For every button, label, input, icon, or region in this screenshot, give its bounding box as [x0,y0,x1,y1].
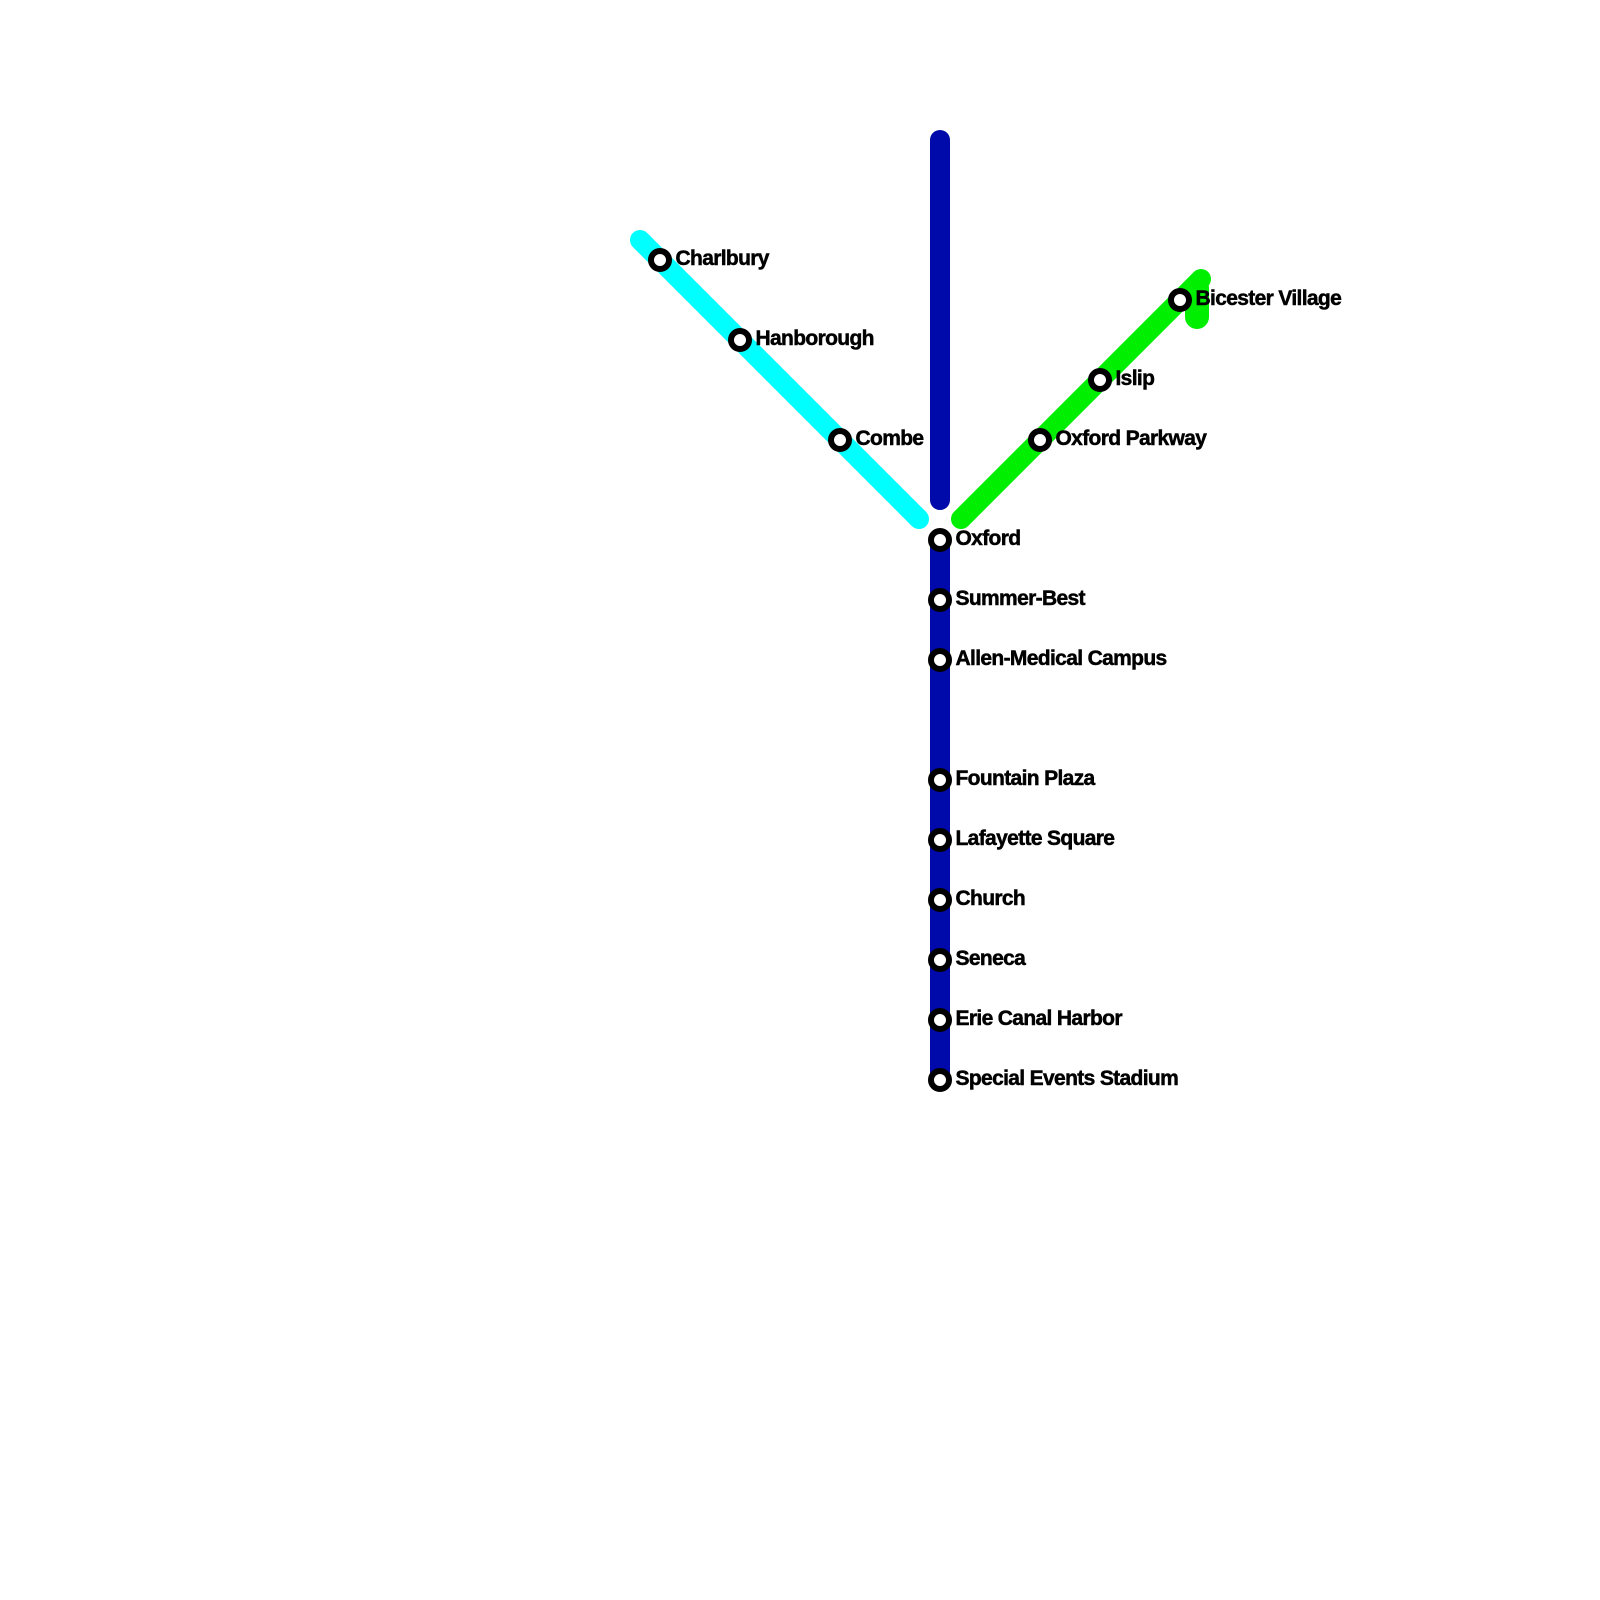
svg-text:Fountain Plaza: Fountain Plaza [956,767,1096,790]
station Oxford [931,527,1020,550]
svg-text:Summer-Best: Summer-Best [956,587,1086,610]
navy line upper segment [930,140,950,500]
station Combe [831,427,923,450]
station Erie Canal Harbor [931,1007,1122,1030]
station Summer-Best [931,587,1086,610]
svg-text:Islip: Islip [1116,367,1155,390]
station Charlbury [651,247,770,270]
station Hanborough [731,327,874,350]
svg-text:Oxford: Oxford [956,527,1021,550]
svg-text:Allen-Medical Campus: Allen-Medical Campus [956,647,1167,670]
station Fountain Plaza [931,767,1096,790]
station Islip [1091,367,1154,390]
station Church [931,887,1025,910]
svg-text:Bicester Village: Bicester Village [1196,287,1342,310]
station Allen-Medical Campus [931,647,1167,670]
station Lafayette Square [931,827,1114,850]
svg-text:Church: Church [956,887,1026,910]
svg-text:Combe: Combe [856,427,924,450]
svg-text:Hanborough: Hanborough [756,327,874,350]
green line [961,279,1201,519]
green terminal stub [1185,288,1209,317]
navy line lower segment [930,540,950,1080]
svg-text:Seneca: Seneca [956,947,1027,970]
station Oxford Parkway [1031,427,1207,450]
svg-text:Lafayette Square: Lafayette Square [956,827,1115,850]
svg-text:Charlbury: Charlbury [676,247,770,270]
station Bicester Village [1171,287,1341,310]
svg-text:Special Events Stadium: Special Events Stadium [956,1067,1179,1090]
station Seneca [931,947,1026,970]
svg-text:Oxford Parkway: Oxford Parkway [1056,427,1208,450]
station Special Events Stadium [931,1067,1178,1090]
cyan line [640,240,919,519]
svg-text:Erie Canal Harbor: Erie Canal Harbor [956,1007,1123,1030]
